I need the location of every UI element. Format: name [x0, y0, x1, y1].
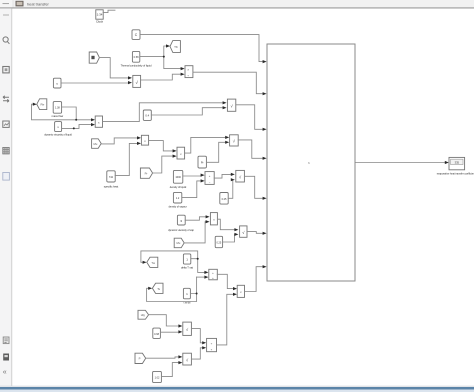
wire v to prod1 in2 — [62, 125, 92, 129]
svg-text:1.2: 1.2 — [176, 197, 180, 200]
wire 0.4 to pow1 in2 — [151, 108, 223, 115]
svg-text:density of vapour: density of vapour — [169, 206, 187, 209]
constant density of vapour — [169, 192, 187, 208]
svg-text:0.25: 0.25 — [222, 198, 227, 201]
svg-text:Pr: Pr — [145, 171, 148, 175]
sum block sum3 — [207, 338, 217, 351]
constant 0.25 b — [215, 236, 222, 247]
wire Clock out — [103, 10, 115, 12]
goto tag TKL — [170, 41, 180, 53]
wire 1000 to sub1 in1 — [183, 174, 202, 177]
constant g dynamic viscosity of vap — [168, 215, 194, 232]
svg-text:evaporative heat transfer coef: evaporative heat transfer coefficient — [437, 173, 474, 176]
constant v dynamic viscosity of liquid — [44, 122, 72, 137]
wire subsystem out to display — [355, 162, 445, 164]
svg-text:0.25: 0.25 — [216, 241, 221, 244]
wire density vapour to sub1 in2 — [182, 181, 202, 198]
svg-text:heat transfer: heat transfer — [27, 1, 50, 6]
math power block pow3 — [236, 170, 245, 182]
wire sqrt to sum1 in2 — [141, 74, 182, 80]
constant 0.58 thermal conductivity — [121, 51, 152, 67]
from tag P — [135, 353, 146, 363]
wire Pr1 to pow2 in2 — [206, 142, 225, 162]
wire pow2 to subsystem in4 — [238, 140, 263, 158]
from tag Mu2 — [174, 238, 184, 248]
math power block pow6 — [183, 353, 192, 365]
svg-text:t w tbl: t w tbl — [184, 300, 191, 304]
svg-text:1.02: 1.02 — [155, 376, 160, 379]
wire prod4 to subsystem in7 — [245, 267, 264, 292]
wire pow3 to subsystem in5 — [244, 176, 263, 198]
math power block pow5 — [183, 322, 192, 335]
wire 0.25a to pow3 in2 — [228, 180, 233, 199]
display block evaporative heat transfer coefficient — [437, 157, 474, 175]
wire 1b to Ts and sum2 in2 — [147, 277, 197, 301]
wire 0.58 junction to TKL and sum1 in1 — [140, 46, 181, 69]
math power block pow2 — [230, 135, 239, 146]
wire P to pow6 in1 — [146, 357, 179, 358]
goto tag Tw — [147, 257, 158, 267]
wire Mu1 to mult1 in1 — [101, 138, 137, 144]
wire specific heat to mult1 in2 — [115, 143, 137, 175]
constant 1.02 — [153, 371, 162, 382]
sum block sum1 — [185, 66, 193, 78]
svg-text:Pr: Pr — [201, 161, 204, 165]
from tag Pr — [140, 168, 152, 178]
left tool strip — [0, 8, 12, 386]
wire g to prod3 in1 — [185, 217, 206, 220]
svg-text:1000: 1000 — [175, 176, 181, 179]
sum block sub1 — [205, 172, 214, 185]
wire prod3 to pow4 in1 — [217, 219, 235, 230]
wire Pr to sq1 in2 — [153, 156, 174, 173]
fit-view icon — [3, 67, 9, 73]
svg-text:335: 335 — [455, 160, 460, 164]
top toolbar bar — [0, 0, 474, 8]
magnifier icon — [3, 37, 9, 44]
constant specific heat — [104, 171, 119, 189]
wire Hfg to pow5 in1 — [149, 315, 179, 326]
svg-text:Re: Re — [40, 103, 44, 107]
constant Pr1 — [198, 156, 206, 168]
product block prod3 — [210, 213, 217, 225]
annotation icon — [3, 121, 9, 127]
svg-text:Clock: Clock — [96, 20, 104, 24]
clock block Clock — [96, 10, 104, 24]
constant C — [132, 30, 140, 40]
goto tag Re — [37, 99, 47, 110]
constant 1 delta T sat — [181, 254, 193, 270]
svg-text:0.4: 0.4 — [145, 114, 149, 118]
wire mult1 to sq1 in1 — [149, 141, 174, 151]
grid icon — [3, 148, 9, 154]
svg-text:Hfg: Hfg — [141, 313, 146, 317]
from tag B — [89, 52, 99, 63]
wire C to subsystem in1 — [140, 35, 263, 62]
wire 1.02 to pow6 in2 — [161, 363, 179, 377]
constant 0.25 a — [220, 193, 228, 205]
svg-text:742: 742 — [109, 176, 114, 179]
goto tag Ts — [152, 283, 163, 293]
product block prod1 — [95, 116, 102, 127]
svg-text:delta T sat: delta T sat — [181, 266, 193, 270]
svg-text:Mu: Mu — [176, 241, 180, 245]
constant 0.4 — [143, 110, 151, 120]
constant 1.38 mass flow — [52, 102, 64, 118]
from tag Mu1 — [92, 139, 102, 149]
product block sq1 — [177, 147, 185, 159]
constant 1 delta T sub — [183, 288, 190, 304]
svg-text:Thermal conductivity of liquid: Thermal conductivity of liquid — [121, 65, 152, 68]
wire sub1 to pow3 in1 — [214, 174, 231, 178]
svg-text:0.68: 0.68 — [154, 333, 159, 336]
constant 0.68 — [153, 328, 161, 338]
svg-text:dynamic viscosity of liquid: dynamic viscosity of liquid — [44, 133, 72, 136]
sum block sum2 — [209, 269, 218, 280]
svg-text:mass flow: mass flow — [52, 114, 64, 118]
svg-text:1:34: 1:34 — [97, 13, 103, 17]
dark icon — [3, 354, 9, 361]
svg-text:TK: TK — [174, 45, 178, 49]
wire 0.68 to pow5 in2 — [160, 331, 179, 333]
wire B to sqrt in1 — [99, 58, 128, 78]
wire pow1 to subsystem in3 — [236, 105, 263, 130]
subsystem block — [267, 44, 355, 281]
svg-text:1.38: 1.38 — [55, 107, 60, 110]
wire sum2 to prod4 in1 — [217, 274, 233, 288]
svg-text:P: P — [139, 357, 141, 361]
bottom window edge — [0, 386, 474, 392]
wire pow4 to subsystem in6 — [247, 232, 263, 234]
svg-text:0.58: 0.58 — [134, 56, 139, 59]
wire prod1 to pow1 in1 — [103, 103, 224, 122]
product block mult1 — [141, 135, 148, 145]
wire sq1 to pow2 in1 — [185, 137, 226, 153]
wire 0.25b to pow4 in2 — [223, 234, 235, 242]
wire pow6 to sum3 in2 — [191, 348, 202, 359]
svg-text:dynamic viscosity of vap: dynamic viscosity of vap — [168, 229, 194, 232]
sqrt block — [133, 75, 141, 87]
constant k — [53, 78, 61, 88]
wire Mu2 to prod3 in2 — [184, 222, 206, 243]
swap arrows icon — [3, 96, 9, 102]
document icon — [3, 337, 9, 344]
constant 1000 density of liquid — [170, 170, 187, 188]
wire Re branch — [32, 104, 77, 120]
wire k to sqrt in2 — [61, 82, 129, 84]
wire 1a to Tw and sum2 in1 — [141, 251, 205, 273]
wire sum3 to prod4 in2 — [217, 294, 234, 345]
product block prod4 — [237, 285, 244, 297]
svg-text:Mu: Mu — [93, 142, 97, 146]
math power block pow1 — [227, 99, 235, 111]
svg-text:density of liquid: density of liquid — [170, 186, 187, 189]
from tag Hfg — [138, 310, 149, 319]
light square icon — [3, 173, 10, 181]
wire pow5 to sum3 in1 — [191, 329, 202, 343]
wire 1.38 to prod1 in1 — [62, 107, 92, 120]
svg-text:specific heat: specific heat — [104, 184, 119, 188]
math power block pow4 — [240, 226, 247, 237]
wire sum1 to subsystem in2 — [193, 72, 263, 94]
svg-text:«: « — [3, 369, 7, 376]
